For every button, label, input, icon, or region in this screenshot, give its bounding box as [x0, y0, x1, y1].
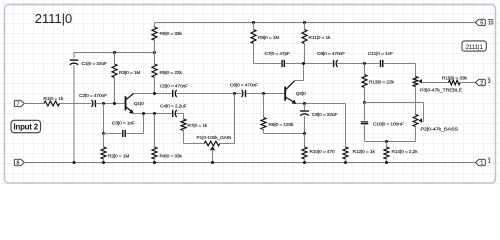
- terminal 5: [475, 19, 485, 26]
- svg-text:R8|0 = 1M: R8|0 = 1M: [258, 35, 279, 41]
- svg-text:7: 7: [16, 101, 19, 107]
- resistor R14: [384, 142, 389, 163]
- capacitor C2: [92, 100, 96, 107]
- svg-text:C3|0 = 1nF: C3|0 = 1nF: [112, 120, 135, 126]
- wire P3 to P2: [415, 87, 417, 115]
- svg-text:1: 1: [488, 159, 491, 165]
- title 2111|0: [35, 11, 73, 26]
- wire C6 to Q2 base: [246, 93, 285, 95]
- svg-text:R11|0 = 1k: R11|0 = 1k: [309, 35, 332, 41]
- wire Q2 collector riser: [295, 64, 304, 81]
- svg-text:R9|0 = 120k: R9|0 = 120k: [269, 122, 295, 128]
- svg-text:Input 2: Input 2: [13, 123, 38, 132]
- wire R1 to C2: [60, 103, 92, 105]
- wire R15 to terminal 2: [460, 82, 475, 84]
- label R14|0 = 2,2k: [392, 149, 419, 155]
- label P3|0-47k_TREBLE: [420, 88, 462, 94]
- node R3 base junction: [113, 102, 116, 105]
- wire R7 to P1: [184, 131, 205, 144]
- label C2|0 = 470nF: [79, 93, 107, 99]
- node C3 riser junction: [142, 112, 145, 115]
- label R1|0 = 1k: [44, 96, 64, 102]
- svg-text:R1|0 = 1k: R1|0 = 1k: [44, 96, 64, 102]
- label Q1|0: [134, 101, 144, 107]
- capacitor C5: [173, 90, 177, 97]
- label C7|0 = 47pF: [265, 51, 291, 57]
- label C5|0 = 470nF: [160, 84, 188, 90]
- wire P2 bottom to C10: [365, 127, 416, 142]
- svg-text:C1|0 = 22uF: C1|0 = 22uF: [82, 61, 108, 67]
- svg-text:R2|0 = 1M: R2|0 = 1M: [108, 153, 129, 159]
- node R4 emitter junction: [153, 112, 156, 115]
- wire C2 to Q1 base: [96, 103, 125, 105]
- label C6|0 = 470nF: [230, 82, 258, 88]
- node Q2 collector junction: [302, 62, 305, 65]
- resistor R5: [152, 53, 157, 94]
- capacitor C9: [334, 60, 338, 67]
- svg-text:C8|0 = 22uF: C8|0 = 22uF: [312, 112, 338, 118]
- node C8 junction: [303, 102, 306, 105]
- label R10|0 = 470: [310, 149, 336, 155]
- svg-text:C6|0 = 470nF: C6|0 = 470nF: [230, 82, 258, 88]
- node R3 top junction: [113, 51, 116, 54]
- node R5 collector junction: [153, 92, 156, 95]
- transistor Q1: [126, 94, 134, 114]
- terminal 2: [475, 79, 485, 86]
- terminal 8: [14, 159, 24, 166]
- label R2|0 = 1M: [108, 153, 129, 159]
- node ground R14: [385, 161, 388, 164]
- wire base branch down: [103, 104, 105, 134]
- wire C9 to C11: [337, 63, 379, 65]
- wire upper-left rail: [74, 52, 155, 54]
- svg-text:R12|0 = 1k: R12|0 = 1k: [353, 149, 376, 155]
- wire C3 to emitter riser: [126, 114, 143, 134]
- svg-text:R14|0 = 2,2k: R14|0 = 2,2k: [392, 149, 419, 155]
- svg-text:C9|0 = 470nF: C9|0 = 470nF: [317, 51, 345, 57]
- svg-text:R7|0 = 1k: R7|0 = 1k: [188, 123, 208, 129]
- label C3|0 = 1nF: [112, 120, 135, 126]
- label C8|0 = 22uF: [312, 112, 338, 118]
- label C10|0 = 100nF: [373, 122, 404, 128]
- node ground R4: [153, 161, 156, 164]
- resistor R4: [152, 114, 157, 163]
- svg-text:2: 2: [480, 80, 483, 86]
- wire input to R1: [24, 103, 44, 105]
- svg-text:2111|0: 2111|0: [35, 11, 73, 26]
- wire Q2 emitter line: [296, 103, 346, 105]
- node pot riser junction: [233, 92, 236, 95]
- terminal 7: [14, 100, 24, 107]
- svg-text:P3|0-47k_TREBLE: P3|0-47k_TREBLE: [420, 88, 462, 94]
- label P2|0-47k_BASS: [421, 126, 459, 132]
- net label 3: [488, 78, 491, 85]
- svg-text:R5|0 = 22k: R5|0 = 22k: [160, 70, 183, 76]
- terminal 1: [475, 159, 485, 166]
- resistor R8: [251, 23, 256, 64]
- svg-text:P1|0-100k_GAIN: P1|0-100k_GAIN: [197, 135, 232, 141]
- wire C7 to C9: [285, 63, 332, 65]
- capacitor C1: [70, 53, 79, 163]
- resistor R2: [101, 134, 106, 163]
- node R14 junction: [385, 140, 388, 143]
- resistor R15: [449, 80, 461, 85]
- svg-text:3: 3: [488, 79, 491, 85]
- capacitor C6: [242, 90, 246, 97]
- resistor R6: [152, 23, 157, 53]
- node ground C1: [73, 161, 76, 164]
- transistor Q2: [285, 81, 296, 104]
- resistor R1: [44, 101, 60, 106]
- svg-text:R15|0 = 33k: R15|0 = 33k: [442, 75, 468, 81]
- capacitor C4: [173, 110, 177, 117]
- node R13 C10 junction: [363, 101, 366, 104]
- Input 2 label box: [11, 120, 41, 132]
- label R15|0 = 33k: [442, 75, 468, 81]
- node R8 rail junction: [252, 21, 255, 24]
- wire P1 right riser: [220, 94, 235, 144]
- capacitor C3: [123, 130, 126, 137]
- label R13|0 = 22k: [369, 80, 395, 86]
- svg-text:5: 5: [480, 20, 483, 26]
- wire C11 to P3: [384, 64, 416, 77]
- svg-text:10: 10: [488, 21, 494, 27]
- wire Q1 collector line: [134, 93, 172, 95]
- wire emitter to R12: [345, 104, 347, 148]
- svg-text:R13|0 = 22k: R13|0 = 22k: [369, 80, 395, 86]
- wire treble line: [254, 63, 282, 65]
- node R13 top junction: [363, 62, 366, 65]
- resistor R13: [362, 64, 367, 103]
- capacitor C11: [380, 60, 382, 67]
- label Q2|0: [296, 91, 306, 97]
- svg-text:C2|0 = 470nF: C2|0 = 470nF: [79, 93, 107, 99]
- label R12|0 = 1k: [353, 149, 376, 155]
- resistor R9: [261, 94, 305, 134]
- resistor R10: [302, 134, 307, 163]
- wire ground rail: [24, 162, 475, 164]
- wire C5 to C6: [176, 93, 242, 95]
- wire top supply rail: [155, 22, 476, 24]
- wire junction to C3: [104, 133, 122, 135]
- node ground P1 wiper: [211, 161, 214, 164]
- label R8|0 = 1M: [258, 35, 279, 41]
- label R5|0 = 22k: [160, 70, 183, 76]
- wire Q1 emitter line: [133, 113, 172, 115]
- node R6 bottom junction: [153, 51, 156, 54]
- svg-text:Q2|0: Q2|0: [296, 91, 306, 97]
- capacitor C7: [282, 60, 284, 67]
- node R11 rail junction: [303, 21, 306, 24]
- resistor R7: [181, 119, 186, 131]
- node C3 R2 junction: [102, 132, 105, 135]
- resistor R3: [112, 53, 117, 104]
- label P1|0-100k_GAIN: [197, 135, 232, 141]
- svg-text:R10|0 = 470: R10|0 = 470: [310, 149, 336, 155]
- label C11|0 = 1nF: [368, 51, 393, 57]
- svg-text:R6|0 = 33k: R6|0 = 33k: [160, 31, 183, 37]
- wire P3 wiper to R15: [422, 82, 449, 84]
- label R4|0 = 33k: [160, 153, 183, 159]
- label C4|0 = 2,2uF: [160, 104, 187, 110]
- label R9|0 = 120k: [269, 122, 295, 128]
- resistor R12: [343, 147, 348, 163]
- potentiometer P3: [413, 77, 422, 87]
- capacitor C8: [300, 104, 309, 134]
- node ground R10: [303, 161, 306, 164]
- net label 10: [488, 19, 494, 26]
- node R9 top junction: [262, 92, 265, 95]
- net label 1: [488, 158, 491, 165]
- label R11|0 = 1k: [309, 35, 332, 41]
- potentiometer P1: [204, 141, 220, 162]
- capacitor C10: [361, 103, 368, 142]
- svg-text:1: 1: [480, 160, 483, 166]
- node ground R12: [344, 161, 347, 164]
- svg-text:C5|0 = 470nF: C5|0 = 470nF: [160, 84, 188, 90]
- svg-text:8: 8: [16, 160, 19, 166]
- svg-text:P2|0-47k_BASS: P2|0-47k_BASS: [421, 126, 459, 132]
- svg-text:C10|0 = 100nF: C10|0 = 100nF: [373, 122, 404, 128]
- svg-text:R4|0 = 33k: R4|0 = 33k: [160, 153, 183, 159]
- wire P2 wiper return: [365, 103, 424, 122]
- node base branch junction: [102, 102, 105, 105]
- svg-text:R3|0 = 1M: R3|0 = 1M: [119, 70, 140, 76]
- resistor R11: [302, 23, 307, 64]
- svg-text:C7|0 = 47pF: C7|0 = 47pF: [265, 51, 291, 57]
- node R9 C8 junction: [303, 132, 306, 135]
- svg-text:2111|1: 2111|1: [465, 44, 483, 51]
- label R7|0 = 1k: [188, 123, 208, 129]
- wire C4 to R7: [176, 114, 183, 120]
- potentiometer P2: [413, 115, 422, 127]
- label C9|0 = 470nF: [317, 51, 345, 57]
- 2111|1 label box: [462, 41, 486, 51]
- svg-text:Q1|0: Q1|0: [134, 101, 144, 107]
- label R6|0 = 33k: [160, 31, 183, 37]
- label R3|0 = 1M: [119, 70, 140, 76]
- svg-text:C11|0 = 1nF: C11|0 = 1nF: [368, 51, 393, 57]
- node ground R2: [102, 161, 105, 164]
- label C1|0 = 22uF: [82, 61, 108, 67]
- svg-text:C4|0 = 2,2uF: C4|0 = 2,2uF: [160, 104, 187, 110]
